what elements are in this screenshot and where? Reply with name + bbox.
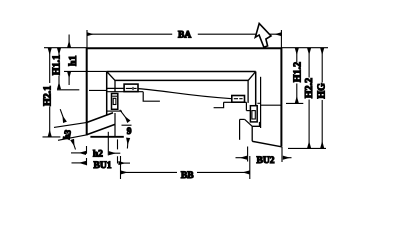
svg-text:H1.1: H1.1 (51, 55, 62, 75)
h2 right extension (107, 132, 109, 156)
shelf left of right box (224, 101, 232, 103)
BA dimension line (87, 33, 281, 35)
h1 bottom arrow (68, 72, 70, 85)
H1.2 bottom ref line (286, 102, 303, 104)
H1.1 dimension line (58, 48, 60, 57)
right reveal vertical (247, 81, 249, 103)
BU1 right extension (117, 139, 119, 163)
inner opening left edge (106, 72, 108, 116)
shelf line under left box (107, 91, 144, 93)
threshold lower extension (58, 135, 86, 140)
second inner top edge (115, 79, 248, 81)
svg-text:BB: BB (181, 171, 194, 181)
chamfer top-right (248, 72, 256, 81)
right sash box (232, 96, 245, 103)
sash corner ledge (240, 118, 245, 120)
wedge top extension right (122, 124, 132, 126)
H2.1 bottom ref line (43, 136, 61, 138)
right jamb vertical under box (245, 102, 247, 110)
leader arrow 9 upper (120, 110, 129, 122)
sash box left (124, 84, 138, 92)
BB dimension line (121, 171, 249, 173)
threshold lower diagonal (86, 124, 115, 135)
step under right hinge (252, 122, 259, 141)
h2 left extension (86, 146, 88, 165)
H1.2 dimension line (296, 48, 298, 62)
step below left box (143, 92, 160, 102)
h1 bottom ref line (64, 70, 107, 72)
chamfer top-left (107, 72, 115, 81)
hinge right box (250, 106, 257, 122)
h3 upper arrow (60, 109, 65, 122)
ledge to hinge (246, 110, 250, 112)
BU1 left arrow (72, 162, 86, 164)
mouse cursor (255, 24, 271, 48)
h3 lower arrow (72, 140, 75, 150)
svg-text:H2.1: H2.1 (42, 86, 53, 106)
shelf right of right box (245, 101, 247, 103)
sash box left inner dash (126, 87, 137, 89)
BU2 right extension (281, 147, 283, 162)
svg-text:H1.2: H1.2 (292, 62, 303, 82)
BU2 left arrow (236, 157, 247, 159)
hinge left inner rect (113, 98, 116, 104)
bottom edge left (90, 136, 123, 138)
sash box left tick (132, 87, 134, 90)
H2.2 dimension line (308, 48, 310, 77)
BB left extension (120, 156, 122, 179)
inner opening top edge (107, 71, 256, 73)
BU2 left extension (247, 147, 249, 162)
hinge left mid dash (112, 95, 117, 97)
cable diagonal (138, 89, 232, 99)
svg-text:h1: h1 (68, 55, 79, 66)
sash corner diagonal (245, 119, 253, 126)
line under left hinge (107, 110, 122, 112)
step left of right box (214, 102, 224, 107)
right reveal second vertical (260, 77, 262, 128)
top-left extension line (44, 47, 87, 49)
svg-text:h2: h2 (93, 149, 103, 159)
bottom right diagonal (252, 141, 281, 147)
svg-text:BU2: BU2 (257, 156, 275, 166)
h2 left arrow (71, 152, 86, 154)
svg-text:BA: BA (178, 31, 191, 41)
svg-text:H2.2: H2.2 (304, 78, 315, 98)
BU2 right arrow (283, 157, 291, 159)
top-right extension line (282, 47, 329, 49)
h2 right arrow (109, 152, 120, 154)
svg-text:BU1: BU1 (94, 161, 112, 171)
svg-text:h3: h3 (61, 129, 73, 141)
outer frame right edge (280, 48, 282, 147)
h1 top arrow (68, 35, 70, 48)
right sash box dash (234, 98, 243, 100)
bottom-right extension line (288, 147, 326, 149)
hinge right inner rect (252, 111, 255, 119)
threshold upper extension (54, 122, 87, 127)
BU1 right arrow (119, 162, 130, 164)
right jamb inner shelf line (261, 104, 282, 106)
svg-text:HG: HG (317, 83, 328, 99)
H2.1 dimension line (49, 48, 51, 83)
inner opening right edge (255, 72, 257, 106)
BB right extension (249, 156, 251, 179)
H1.1 bottom ref line (57, 89, 106, 92)
svg-text:9: 9 (127, 127, 132, 137)
left reveal vertical (114, 80, 116, 91)
BA extension tick left (86, 30, 88, 48)
outer frame left edge (86, 48, 88, 135)
track line left (107, 87, 124, 89)
threshold upper diagonal (87, 113, 113, 123)
threshold right edge (114, 113, 116, 137)
sash corner vertical (239, 119, 241, 139)
arrow 9 lower (126, 138, 129, 148)
BA extension tick right (280, 30, 282, 48)
ledge right of right hinge (257, 102, 261, 104)
hinge left box (112, 94, 118, 110)
HG dimension line (321, 48, 323, 82)
outer frame top edge (87, 47, 282, 49)
